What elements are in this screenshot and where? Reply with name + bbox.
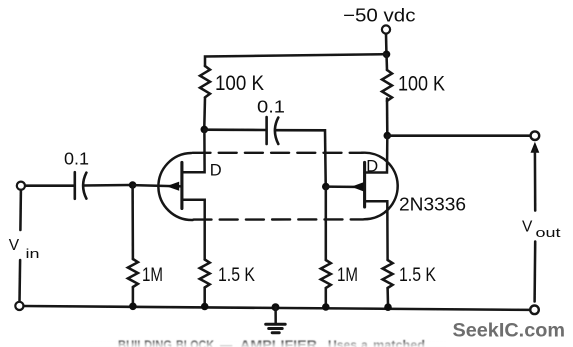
capacitor 0.1 middle — [267, 117, 279, 144]
node rail-ground — [272, 303, 280, 311]
arrow on output line — [531, 142, 540, 153]
wire right drain node to output terminal — [387, 134, 530, 137]
svg-text:100 K: 100 K — [215, 72, 264, 95]
terminal Vin top — [17, 182, 25, 190]
label Vout — [522, 218, 561, 240]
node rail-1M left — [129, 303, 137, 311]
resistor 1M left — [128, 259, 138, 287]
svg-text:1.5 K: 1.5 K — [399, 265, 436, 286]
svg-text:0.1: 0.1 — [257, 97, 285, 117]
svg-text:100 K: 100 K — [398, 73, 445, 96]
wire C1 to left gate node — [85, 184, 130, 187]
svg-text:1M: 1M — [142, 265, 163, 286]
wire Vin vertical upper — [19, 190, 22, 230]
wire drain node to capacitor C2 — [204, 128, 266, 131]
wire output vertical upper — [534, 148, 537, 211]
Q1 gate arrow — [166, 182, 179, 191]
svg-text:−50 vdc: −50 vdc — [343, 5, 416, 26]
wire 100K left to drain node — [203, 98, 206, 128]
svg-text:V: V — [522, 218, 533, 235]
node left drain junction — [201, 126, 209, 134]
Q2 channel bar — [363, 162, 366, 207]
resistor 1.5K right — [383, 260, 393, 288]
node rail-1M right — [322, 303, 330, 311]
wire 1.5K left to rail — [203, 288, 206, 305]
svg-text:D: D — [366, 157, 378, 175]
svg-text:SeekIC.com: SeekIC.com — [453, 320, 566, 342]
capacitor 0.1 input — [75, 172, 87, 199]
node supply junction — [383, 51, 391, 59]
Q2 gate arrow — [351, 182, 363, 191]
transistor Q1 (left JFET) — [133, 131, 205, 260]
node right drain junction — [384, 132, 392, 140]
Q2 drain lead — [365, 137, 388, 173]
svg-text:0.1: 0.1 — [64, 149, 89, 169]
node rail-1.5K right — [384, 303, 392, 311]
Q1 channel bar — [180, 162, 183, 208]
wire 1.5K right to rail — [386, 288, 389, 305]
svg-text:V: V — [9, 237, 20, 254]
Q1 source lead — [182, 200, 205, 260]
svg-text:1M: 1M — [337, 265, 358, 286]
wire right gate node down to 1M right — [325, 187, 328, 260]
Q1 drain lead — [182, 131, 205, 172]
svg-text:2N3336: 2N3336 — [399, 195, 466, 215]
resistor 100K right — [382, 70, 392, 101]
resistor 100K left — [200, 66, 210, 97]
wire 1M right to rail — [325, 288, 328, 305]
wire supply terminal to node — [385, 34, 388, 52]
wire bottom rail — [24, 306, 531, 310]
node right gate junction — [322, 183, 330, 191]
wire Vin vertical lower — [18, 260, 21, 302]
wire C2 to right gate node — [277, 130, 326, 184]
wire Vin terminal to capacitor C1 — [25, 184, 73, 187]
wire top rail right: node to 100K right — [385, 54, 388, 70]
Q2 envelope arc — [362, 153, 398, 220]
svg-text:1.5 K: 1.5 K — [218, 265, 255, 286]
transistor Q2 (right JFET) — [326, 137, 398, 260]
svg-text:D: D — [210, 161, 222, 179]
Q1 envelope arc — [158, 153, 192, 220]
dashed package outline bottom — [194, 218, 364, 221]
node rail-1.5K left — [201, 303, 209, 311]
Q1 gate lead — [133, 185, 182, 186]
wire output vertical lower — [533, 242, 536, 302]
svg-text:in: in — [26, 246, 40, 261]
wire 100K right to right drain node — [386, 99, 389, 134]
label Vin — [9, 237, 40, 261]
Q2 source lead — [365, 201, 388, 260]
ground symbol — [266, 307, 286, 333]
Q2 gate lead — [326, 185, 365, 188]
resistor 1.5K left — [200, 260, 210, 288]
wire top rail to left branch — [205, 54, 387, 66]
dashed package outline top — [193, 152, 362, 154]
wire 1M left to rail — [132, 287, 135, 304]
terminal Vout top — [531, 131, 540, 140]
wire left gate node down to 1M — [131, 185, 134, 259]
node left gate junction — [129, 181, 137, 189]
terminal Vout bottom — [530, 306, 539, 315]
terminal Vin bottom — [15, 302, 23, 310]
svg-text:out: out — [536, 225, 562, 240]
resistor 1M right — [321, 260, 331, 288]
terminal -50vdc — [382, 25, 390, 33]
